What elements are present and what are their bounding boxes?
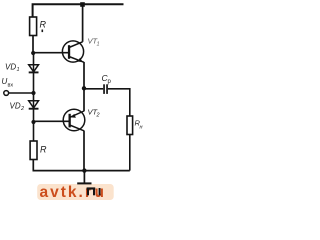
wire: VT1 emitter down to output node: [83, 62, 85, 89]
wire: VT2 collector down to ground rail: [83, 131, 85, 171]
label VD2: [10, 102, 25, 113]
node: VT1 base junction: [31, 51, 35, 55]
wire: VD1 to input node: [33, 72, 35, 93]
svg-text:avtk.r: avtk.r: [40, 184, 93, 200]
node: VT2 base junction: [31, 120, 35, 124]
node: ground junction on bottom rail: [82, 168, 86, 172]
transistor VT1: [62, 41, 84, 62]
svg-text:R: R: [40, 145, 47, 155]
node: output junction (emitters / Cp): [82, 86, 86, 90]
watermark avtk.ru background: [37, 184, 114, 200]
wire: node to diode VD2: [33, 93, 35, 101]
ground: [77, 171, 100, 196]
svg-text:1: 1: [97, 42, 100, 48]
label Rn: [135, 119, 143, 131]
label VT2: [88, 108, 100, 119]
capacitor Cp: [103, 84, 108, 94]
wire: capacitor to load branch: [108, 89, 130, 116]
node: junction of VT1 collector with top rail: [80, 2, 85, 7]
resistor Rn (load): [127, 116, 133, 135]
wire: top supply rail: [33, 4, 124, 18]
wire: bottom ground rail: [33, 170, 130, 172]
wire: node to R2: [33, 122, 35, 141]
wire: output node to capacitor: [84, 88, 103, 90]
wire: VD2 to VT2 base node: [33, 109, 35, 122]
terminal: input Uvx circle: [4, 91, 9, 96]
wire: output node down to VT2 emitter: [83, 89, 85, 112]
wire: Rn bottom to ground rail: [129, 135, 131, 171]
watermark avtk.ru text: [40, 184, 104, 201]
diode VD2: [29, 101, 39, 109]
wire: VT1 collector to top rail: [82, 4, 84, 42]
label R1: [40, 20, 47, 33]
wire: R1 bottom to VT1 base node: [32, 36, 34, 54]
label Cp: [102, 73, 112, 85]
label R2: [40, 145, 47, 155]
svg-text:R: R: [40, 20, 47, 30]
resistor R1: [30, 17, 37, 36]
label Uvx: [2, 77, 14, 89]
transistor VT2: [63, 109, 85, 131]
wire: VT2 base wire: [34, 120, 70, 122]
svg-text:1: 1: [17, 67, 20, 73]
label VT1: [88, 37, 100, 48]
svg-text:вх: вх: [8, 83, 14, 89]
svg-text:2: 2: [20, 106, 24, 112]
wire: R2 bottom to ground rail: [32, 160, 34, 171]
resistor R2: [30, 141, 37, 160]
wire: node to diode VD1: [33, 53, 35, 65]
svg-text:VD: VD: [10, 102, 21, 111]
wire: input terminal to node: [9, 92, 34, 94]
svg-text:2: 2: [96, 113, 100, 119]
svg-text:н: н: [140, 125, 143, 131]
diode VD1: [29, 65, 39, 73]
svg-text:VD: VD: [5, 63, 16, 72]
wire: VT1 base wire: [33, 52, 69, 54]
node: input junction: [31, 91, 35, 95]
label VD1: [5, 63, 20, 74]
